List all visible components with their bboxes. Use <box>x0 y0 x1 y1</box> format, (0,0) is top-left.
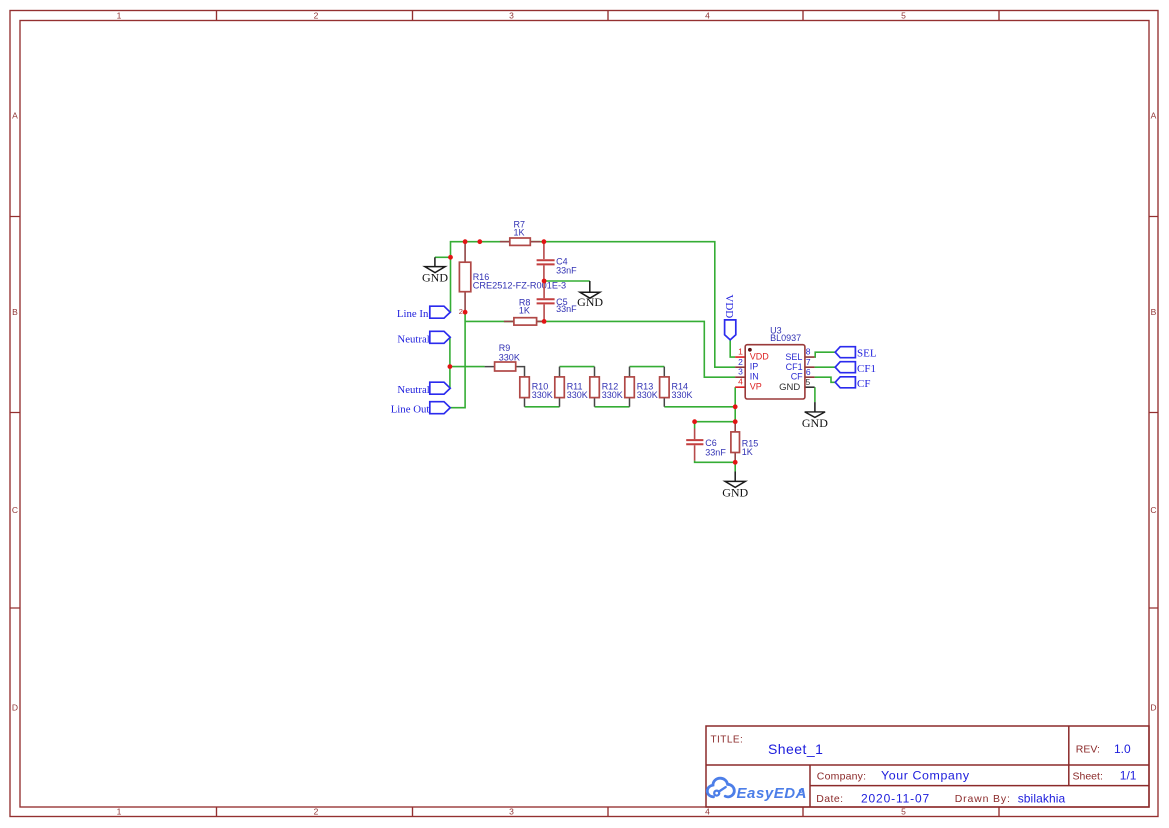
svg-text:5: 5 <box>901 11 906 21</box>
wire R8 row to IC pin3 <box>465 321 735 377</box>
ground symbol GND2 <box>577 281 603 309</box>
svg-text:6: 6 <box>806 367 811 377</box>
svg-text:A: A <box>12 111 18 121</box>
svg-text:sbilakhia: sbilakhia <box>1018 791 1066 805</box>
node Line In <box>463 310 468 315</box>
WIRES <box>435 242 835 472</box>
svg-text:D: D <box>1150 703 1156 713</box>
svg-text:Sheet:: Sheet: <box>1073 771 1103 783</box>
svg-text:VP: VP <box>750 382 762 392</box>
wire Line In to Line Out vertical <box>450 312 465 408</box>
svg-text:R9: R9 <box>499 343 511 353</box>
svg-text:33nF: 33nF <box>556 304 577 314</box>
wire ladder bottom R10-R11 <box>525 406 560 408</box>
svg-text:330K: 330K <box>602 390 623 400</box>
svg-text:CF1: CF1 <box>786 362 803 372</box>
svg-text:GND: GND <box>422 271 448 285</box>
svg-text:Company:: Company: <box>817 771 866 783</box>
svg-text:REV:: REV: <box>1076 744 1100 756</box>
svg-text:2: 2 <box>459 307 463 316</box>
wire pin5 to GND4 <box>814 387 816 402</box>
wire pin7 to CF1 flag <box>815 366 836 368</box>
resistor R15 <box>731 422 758 463</box>
wire R15 bottom to GND3 <box>734 462 736 471</box>
svg-text:4: 4 <box>738 377 743 387</box>
node R15 bottom <box>733 460 738 465</box>
svg-text:EasyEDA: EasyEDA <box>737 785 808 802</box>
svg-text:Neutral: Neutral <box>397 333 429 345</box>
svg-text:2020-11-07: 2020-11-07 <box>861 791 930 805</box>
svg-text:Your Company: Your Company <box>881 768 970 782</box>
svg-text:330K: 330K <box>499 353 520 363</box>
svg-text:Drawn By:: Drawn By: <box>955 793 1011 805</box>
svg-text:D: D <box>12 703 18 713</box>
wire pin6 to CF flag <box>815 377 836 382</box>
svg-text:2: 2 <box>738 357 743 367</box>
svg-text:1: 1 <box>117 807 122 817</box>
resistor R14 <box>660 367 693 407</box>
resistor R12 <box>590 367 623 407</box>
node VP ladder <box>733 404 738 409</box>
svg-text:Line Out: Line Out <box>391 404 430 416</box>
net flag CF <box>835 377 870 390</box>
ground symbol GND3 <box>722 472 748 500</box>
svg-text:7: 7 <box>806 357 811 367</box>
node R9 tap <box>448 364 453 369</box>
node top extra <box>477 239 482 244</box>
svg-text:4: 4 <box>705 807 710 817</box>
wire VDD flag to pin1 <box>730 340 735 357</box>
svg-text:1: 1 <box>738 346 743 356</box>
capacitor C6 <box>686 429 726 461</box>
svg-text:Sheet_1: Sheet_1 <box>768 741 823 757</box>
svg-text:VDD: VDD <box>723 294 735 318</box>
resistor R13 <box>625 367 658 407</box>
resistor R16 shunt <box>459 242 566 316</box>
wire C4 mid to GND2 <box>544 280 590 282</box>
svg-text:330K: 330K <box>637 390 658 400</box>
resistor R8 <box>504 298 544 326</box>
svg-text:GND: GND <box>722 485 748 499</box>
svg-text:33nF: 33nF <box>556 265 577 275</box>
node C5 bottom <box>542 319 547 324</box>
junction dots <box>448 239 738 464</box>
node C6 top <box>692 419 697 424</box>
svg-text:3: 3 <box>509 807 514 817</box>
net flag Line In <box>397 306 450 320</box>
svg-text:2: 2 <box>314 11 319 21</box>
ground symbol GND1 <box>422 257 448 284</box>
svg-text:CF1: CF1 <box>857 363 876 375</box>
ground symbol GND4 <box>802 402 828 430</box>
svg-text:A: A <box>1151 111 1157 121</box>
svg-text:330K: 330K <box>567 390 588 400</box>
capacitor C4 <box>537 242 578 281</box>
svg-text:8: 8 <box>806 346 811 356</box>
svg-text:1K: 1K <box>742 447 753 457</box>
node top R16 <box>463 239 468 244</box>
svg-text:4: 4 <box>705 11 710 21</box>
net flag SEL <box>835 347 877 360</box>
net flag Neutral (upper) <box>397 331 450 345</box>
node R15 top <box>733 419 738 424</box>
svg-text:GND: GND <box>577 295 603 309</box>
wire ladder top R11-R12 <box>560 366 595 368</box>
net flag CF1 <box>835 362 876 375</box>
resistor R11 <box>555 367 588 407</box>
svg-text:1K: 1K <box>514 227 525 237</box>
svg-text:C: C <box>12 505 18 515</box>
wire net LineIn-top: vertical + top run to IC pin2 <box>451 242 736 368</box>
svg-text:5: 5 <box>806 377 811 387</box>
EasyEDA logo <box>707 778 807 802</box>
resistor R10 <box>520 377 553 407</box>
wire ladder top R13-R14 <box>630 366 665 368</box>
svg-text:BL0937: BL0937 <box>770 333 801 343</box>
svg-text:CF: CF <box>857 378 870 390</box>
svg-text:33nF: 33nF <box>705 447 726 457</box>
svg-text:330K: 330K <box>532 390 553 400</box>
title block <box>706 726 1149 807</box>
svg-text:Neutral: Neutral <box>397 384 429 396</box>
net flag Line Out <box>391 402 450 416</box>
resistor R7 <box>500 219 540 245</box>
wire R9 left <box>450 366 485 368</box>
svg-text:330K: 330K <box>672 390 693 400</box>
capacitor C5 <box>537 281 578 321</box>
wire C6 top branch <box>695 422 736 429</box>
node top C4 <box>542 239 547 244</box>
svg-text:SEL: SEL <box>857 347 877 359</box>
wire pin8 to SEL flag <box>815 352 836 357</box>
wire C6 bottom to R15 bottom <box>695 461 736 463</box>
svg-text:VDD: VDD <box>750 351 770 361</box>
svg-text:5: 5 <box>901 807 906 817</box>
svg-text:C: C <box>1150 505 1156 515</box>
svg-text:B: B <box>1151 307 1157 317</box>
wire pin4 VP down <box>734 387 736 422</box>
resistor R9 <box>485 343 525 377</box>
net flag VDD <box>723 294 736 340</box>
op-amp U1 equivalent: IC U3 BL0937 <box>735 326 815 400</box>
svg-text:2: 2 <box>314 807 319 817</box>
svg-text:3: 3 <box>738 367 743 377</box>
svg-text:1/1: 1/1 <box>1120 769 1137 783</box>
svg-text:GND: GND <box>802 416 828 430</box>
svg-text:Line In: Line In <box>397 308 429 320</box>
svg-text:1K: 1K <box>519 306 530 316</box>
svg-text:TITLE:: TITLE: <box>711 734 744 745</box>
wire GND tap left <box>435 256 451 258</box>
svg-text:B: B <box>12 307 18 317</box>
wire Neutral vertical <box>449 337 451 388</box>
svg-text:CRE2512-FZ-R001E-3: CRE2512-FZ-R001E-3 <box>473 281 566 291</box>
svg-text:IN: IN <box>750 372 759 382</box>
svg-text:GND: GND <box>779 382 800 393</box>
svg-text:CF: CF <box>791 371 803 381</box>
svg-text:1: 1 <box>117 11 122 21</box>
svg-text:1.0: 1.0 <box>1114 742 1131 756</box>
svg-text:SEL: SEL <box>785 352 802 362</box>
wire ladder bottom R12-R13 <box>595 406 630 408</box>
node gnd tap <box>448 255 453 260</box>
svg-text:Date:: Date: <box>816 793 843 805</box>
svg-text:3: 3 <box>509 11 514 21</box>
net flag Neutral (lower) <box>397 382 450 396</box>
wire ladder bottom R14 to VP node <box>664 406 735 408</box>
node C4-C5 mid <box>542 279 547 284</box>
svg-text:IP: IP <box>750 362 759 372</box>
